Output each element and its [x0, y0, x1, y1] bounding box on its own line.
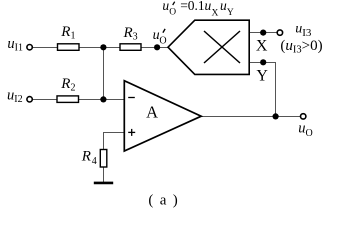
- resistor R4: [100, 150, 107, 168]
- terminal u_O: [301, 114, 306, 119]
- resistor R2: [57, 96, 79, 103]
- resistor R1: [58, 44, 80, 51]
- node junction inverting input: [100, 96, 106, 102]
- svg-text:X: X: [256, 38, 268, 55]
- multiplier X cross: [204, 31, 240, 63]
- wire multiplier X input to u_I3 terminal: [250, 32, 278, 34]
- node u_O' dot: [154, 44, 160, 50]
- wire R2 to op-amp inverting input: [79, 99, 125, 101]
- svg-text:u: u: [205, 0, 212, 13]
- svg-text:(uI3>0): (uI3>0): [280, 38, 322, 56]
- terminal u_I3: [277, 30, 282, 35]
- node X input dot: [260, 29, 266, 35]
- op-amp plus sign: [128, 131, 135, 133]
- svg-text:Y: Y: [256, 68, 268, 85]
- wire R1 to R3 through node: [79, 47, 120, 49]
- svg-text:( a ): ( a ): [148, 193, 179, 209]
- wire u_I2 to R2: [32, 99, 57, 101]
- wire vertical node A to node B: [103, 47, 105, 100]
- svg-text:=0.1: =0.1: [180, 0, 205, 13]
- node Y input dot: [260, 59, 266, 65]
- resistor R3: [120, 44, 141, 51]
- node output junction: [273, 113, 279, 119]
- op-amp U1 triangle: [124, 81, 201, 151]
- svg-text:Y: Y: [227, 8, 234, 18]
- ground: [94, 182, 113, 185]
- wire op-amp noninverting input to R4: [104, 133, 125, 151]
- wire R4 to ground: [103, 167, 105, 183]
- svg-text:O: O: [169, 8, 176, 18]
- wire R3 to multiplier input: [141, 47, 169, 49]
- node junction top (R1/R2/R3): [100, 44, 106, 50]
- wire u_I1 to R1: [32, 47, 58, 49]
- svg-text:O: O: [159, 35, 166, 46]
- op-amp minus sign: [128, 97, 135, 99]
- wire multiplier Y input to output node: [250, 63, 276, 117]
- multiplier M1 body: [168, 20, 249, 74]
- wire op-amp output to u_O terminal: [201, 116, 302, 118]
- svg-text:X: X: [212, 8, 219, 18]
- svg-text:A: A: [146, 103, 158, 122]
- terminal u_I2: [27, 97, 32, 102]
- terminal u_I1: [27, 45, 32, 50]
